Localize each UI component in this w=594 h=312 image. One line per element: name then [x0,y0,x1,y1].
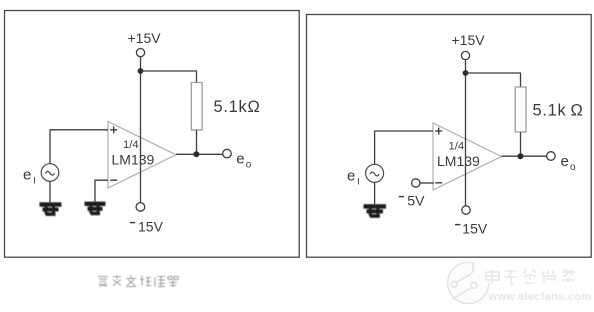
source e_I (left) [41,164,59,182]
+ input marker (left op-amp) [110,126,117,133]
right panel border [307,15,592,258]
wire: source to + input (left) [50,130,108,164]
+15V terminal (right) [461,51,469,59]
op-amp U1: 1/4 LM139 (left) [108,122,176,189]
wire: source to ground (left) [49,181,51,202]
e_o label (left) [236,151,252,171]
ground (right source) [364,204,387,218]
wire: op-amp output to terminal (right) [502,155,547,157]
source e_I (right) [366,164,384,182]
- input marker (right op-amp) [435,182,442,184]
e_o label (right) [561,153,577,173]
output terminal e_o (right) [547,152,556,161]
ground (left source) [40,202,62,216]
node: output junction (left) [193,151,199,157]
wire: source to ground (right) [374,182,376,204]
-5V terminal (right) [412,179,420,187]
-15V label (left) [130,219,164,235]
svg-text:www.elecfans.com: www.elecfans.com [488,291,592,303]
wire: V+ rail down to V- terminal (left) [140,57,142,203]
svg-text:LM139: LM139 [112,152,155,168]
svg-text:e: e [23,166,31,183]
wire: ground to - input (left) [95,180,108,201]
wire: resistor bottom to output node (right) [520,132,522,156]
svg-text:5V: 5V [407,193,425,209]
wire: V+ rail down to V- terminal (right) [465,60,467,206]
svg-text:15V: 15V [462,220,488,236]
-5V label (right) [399,193,425,209]
op-amp U2: 1/4 LM139 (right) [433,123,502,190]
svg-text:e: e [236,151,244,168]
wire: junction to resistor top (left) [141,71,197,83]
watermark: Chinese brand text (light gray) [486,269,575,284]
+15V terminal (left) [136,49,144,57]
svg-text:15V: 15V [138,219,164,235]
- input marker (left op-amp) [110,179,117,181]
svg-text:1/4: 1/4 [123,139,139,151]
svg-text:e: e [347,167,355,184]
resistor 5.1k (left) [191,83,202,131]
wire: op-amp output to terminal (left) [176,153,223,155]
e_I label (left) [23,166,36,186]
ground (inverting input, left) [85,202,106,216]
e_I label (right) [347,167,360,187]
svg-text:o: o [570,162,576,173]
node: output junction (right) [517,153,523,159]
output terminal e_o (left) [223,149,232,158]
svg-text:+15V: +15V [452,32,486,48]
svg-text:5.1k Ω: 5.1k Ω [533,101,584,119]
svg-text:1/4: 1/4 [449,141,465,153]
wire: junction to resistor top (right) [466,73,521,87]
wire: -5V terminal to - input (right) [420,182,434,184]
V- terminal (right) [462,206,470,214]
resistor 5.1k (right) [515,87,526,132]
svg-text:I: I [357,176,360,187]
+ input marker (right op-amp) [435,128,442,135]
svg-text:I: I [33,175,36,186]
wire: source to + input (right) [375,131,433,164]
left panel border [5,11,300,258]
node: supply junction (right) [463,70,469,76]
watermark: elecfans logo [448,262,489,303]
-15V label (right) [455,220,488,236]
svg-text:e: e [561,153,569,170]
wire: resistor bottom to output node (left) [196,130,198,154]
svg-text:+15V: +15V [128,30,162,46]
node: supply junction (left) [138,68,144,74]
V- terminal (left) [136,203,145,212]
svg-text:5.1kΩ: 5.1kΩ [214,98,261,116]
svg-text:o: o [246,160,252,171]
svg-text:LM139: LM139 [437,153,480,169]
